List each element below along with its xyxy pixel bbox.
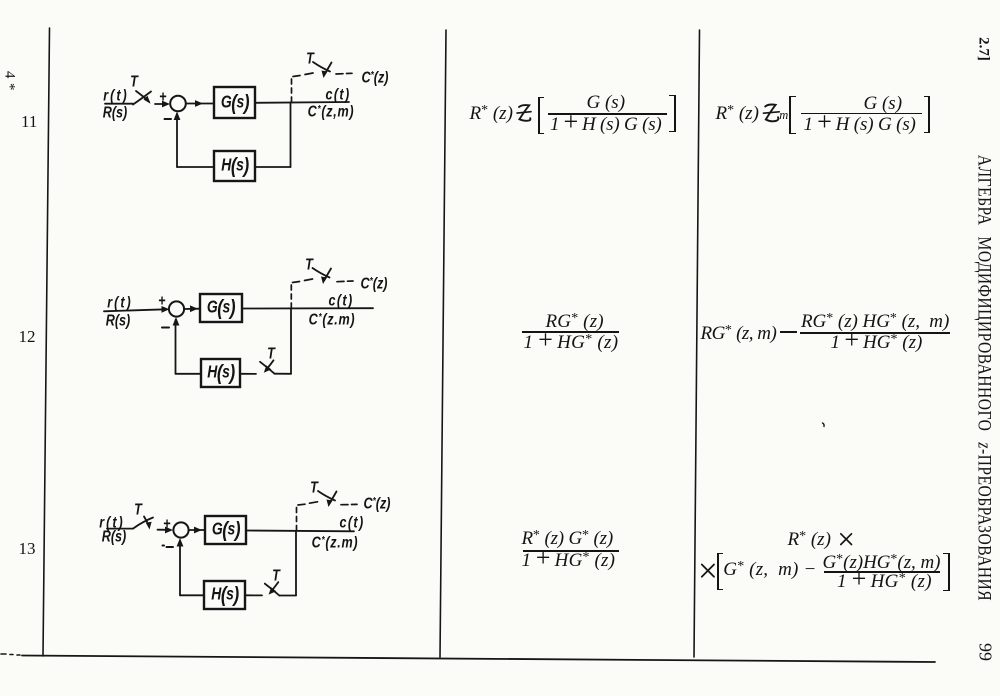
- label G(s) row 11: [220, 93, 248, 113]
- sampler switch arm (feedback, row 13): [265, 584, 280, 596]
- wire: input line with r(t)/R(s) bar row 12: [104, 309, 166, 311]
- f6 numerator: [823, 553, 941, 574]
- label G(s) row 12: [207, 298, 235, 318]
- label C*(z) row 11: [361, 68, 388, 86]
- wire: feedback riser to summing junction row 12: [175, 320, 177, 374]
- f4 head RG*(z,m): [701, 324, 777, 345]
- f4 numerator: [801, 312, 949, 333]
- label H(s) row 11: [221, 156, 248, 176]
- wire: feedback bottom left row 12: [176, 373, 202, 375]
- block H(s) row 11: [214, 151, 255, 181]
- bottom rule leftover dashes: [1, 653, 6, 655]
- wire: feedback bottom right row 11: [255, 166, 291, 168]
- label R(s) row 12: [106, 311, 131, 329]
- sampler switch arm (output, row 12): [313, 268, 330, 278]
- f1 fraction bar: [548, 113, 667, 115]
- sampler arrow (output, row 13): [330, 492, 337, 504]
- sampler arrow (input, row 13): [144, 517, 149, 526]
- table border: middle column rule: [440, 30, 446, 657]
- wire: node tap down row 11: [290, 103, 292, 168]
- label C*(z,m) row 13: [311, 533, 358, 551]
- f5 fraction bar: [523, 550, 620, 552]
- f6 fraction bar: [824, 571, 941, 573]
- wire: summing junction to G(s) row 12: [184, 308, 200, 310]
- label T feedback row 13: [272, 566, 280, 584]
- row number 11: [21, 112, 37, 131]
- wire: input fraction bar r(t)/R(s) row 13: [107, 528, 133, 530]
- minus sign row 13 (dashed): [163, 545, 165, 547]
- wire: dashed riser to ideal sampler row 13: [296, 506, 298, 531]
- wire: feedback riser to summing junction row 11: [176, 114, 178, 167]
- block G(s) row 13: [205, 516, 246, 544]
- wire: dashed lead to C*(z) row 11: [336, 72, 352, 75]
- sampler switch arm (output, row 11): [313, 62, 330, 72]
- f2 denominator: [804, 115, 916, 134]
- wire: feedback riser to summing junction row 13: [179, 541, 181, 595]
- table border: right column rule: [694, 30, 700, 657]
- f4 minus: [780, 331, 797, 333]
- f2 subscript m: [779, 109, 788, 122]
- sampler arrow (output, row 12): [324, 269, 331, 281]
- wire: input fraction bar r(t)/R(s): [105, 103, 133, 105]
- table border: left column rule: [43, 28, 50, 656]
- label c(t) row 13: [339, 513, 364, 531]
- wire: G(s) output line row 13: [246, 530, 354, 533]
- label C*(z,m) row 11: [308, 102, 355, 120]
- label T input row 13: [134, 500, 142, 518]
- sampler switch arm (feedback, row 12): [260, 362, 275, 374]
- f1 right bracket: [669, 95, 676, 133]
- block G(s) row 12: [200, 294, 242, 322]
- f1 left bracket: [538, 97, 545, 135]
- f1 numerator G(s): [587, 93, 626, 112]
- formula 13/3 line 1: R*(z) x: [788, 530, 831, 551]
- wire: dashed lead to C*(z) row 12: [337, 280, 353, 283]
- minus sign row 12: [162, 327, 169, 329]
- f6 head G*(z,m) -: [723, 560, 816, 581]
- label plus row 12: [158, 291, 165, 309]
- wire: summing junction to G(s) row 13: [189, 529, 206, 531]
- wire: dashed lead to C*(z) row 13: [341, 503, 357, 505]
- f1 denominator: [550, 115, 662, 134]
- f2 numerator G(s): [864, 94, 903, 113]
- label R(s) row 13: [102, 527, 127, 545]
- wire: dashed riser to ideal sampler row 11: [291, 77, 293, 102]
- label T output row 11: [306, 49, 314, 67]
- f5 numerator: [522, 529, 613, 550]
- f4 fraction bar: [800, 332, 950, 334]
- sampler arrow (input, row 11): [136, 91, 149, 102]
- multiplication cross, formula 13/3 line 1: [841, 534, 852, 545]
- f2 head R*(z): [716, 104, 759, 125]
- rotated running head title: [972, 155, 993, 601]
- f2 right bracket: [924, 96, 931, 133]
- script Z symbol, formula 11/2: [517, 105, 531, 121]
- wire: H(s) to feedback sampler row 13: [245, 594, 262, 596]
- wire: H(s) to feedback sampler row 12: [240, 373, 256, 375]
- block H(s) row 13: [204, 581, 245, 609]
- wire: G(s) output line row 11: [255, 101, 349, 104]
- label C*(z) row 13: [363, 494, 390, 512]
- f6 denominator: [837, 572, 932, 593]
- f6 left bracket: [717, 553, 724, 589]
- label C*(z) row 12: [361, 274, 388, 292]
- rotated running head section 2.7]: [975, 37, 992, 61]
- f6 right bracket: [943, 553, 950, 591]
- f5 denominator: [522, 551, 616, 572]
- minus sign row 11: [165, 118, 172, 120]
- block G(s) row 11: [214, 87, 255, 118]
- wire: node tap down row 12: [290, 308, 292, 373]
- wire: G(s) output line row 12: [242, 307, 373, 309]
- row number 12: [19, 327, 36, 346]
- sampler arrow (feedback, row 12): [268, 360, 274, 367]
- wire: node tap down row 13: [295, 531, 297, 595]
- wire: into summing junction row 11: [155, 103, 165, 105]
- table border: bottom rule: [22, 656, 935, 663]
- wire: node riser to feedback sampler row 13: [279, 595, 296, 597]
- f4 denominator: [831, 333, 923, 354]
- label T input row 11: [130, 72, 138, 90]
- wire: dashed riser to ideal sampler row 12: [290, 283, 292, 308]
- f1 head R*(z): [470, 104, 513, 125]
- label c(t) row 11: [325, 85, 350, 103]
- summing junction row 11: [170, 96, 186, 112]
- label r(t) row 12: [107, 293, 132, 311]
- row number 13: [19, 539, 36, 558]
- label plus row 11: [159, 87, 166, 105]
- f3 fraction bar: [522, 331, 619, 333]
- wire: node riser to feedback sampler row 12: [275, 373, 292, 375]
- stray ink speck: [823, 423, 825, 427]
- sampler switch arm (input, row 11): [133, 92, 151, 105]
- sampler switch arm (input, row 13): [133, 518, 153, 529]
- label plus row 13: [163, 514, 170, 532]
- f2 left bracket: [789, 96, 796, 133]
- script Z symbol with subscript m, formula 11/3: [763, 104, 779, 121]
- label c(t) row 12: [328, 291, 353, 309]
- label r(t) row 13: [99, 513, 124, 531]
- block H(s) row 12: [201, 359, 240, 387]
- rotated page number 99: [974, 643, 995, 661]
- label T feedback row 12: [267, 344, 275, 362]
- label H(s) row 12: [207, 363, 234, 383]
- sampler switch arm (output, row 13): [318, 491, 335, 501]
- f2 fraction bar: [801, 113, 922, 115]
- f3 numerator: [546, 312, 604, 333]
- wire: summing junction to G(s) row 11: [186, 103, 214, 105]
- multiplication cross, formula 13/3 line 2: [702, 565, 714, 577]
- summing junction row 13: [173, 522, 188, 537]
- label G(s) row 13: [211, 520, 239, 540]
- label T output row 12: [305, 255, 313, 273]
- summing junction row 12: [169, 301, 184, 316]
- f3 denominator: [524, 333, 619, 354]
- rotated margin note 4*: [0, 71, 17, 95]
- label C*(z,m) row 12: [308, 310, 355, 328]
- sampler arrow (output, row 11): [325, 63, 332, 75]
- label r(t) row 11: [103, 86, 128, 104]
- label H(s) row 13: [211, 585, 238, 605]
- wire: feedback bottom left row 11: [177, 166, 214, 168]
- label R(s) row 11: [102, 103, 127, 121]
- wire: into summing junction row 13: [158, 529, 169, 531]
- label T output row 13: [310, 478, 318, 496]
- wire: feedback bottom left row 13: [180, 594, 204, 596]
- sampler arrow (feedback, row 13): [273, 582, 279, 589]
